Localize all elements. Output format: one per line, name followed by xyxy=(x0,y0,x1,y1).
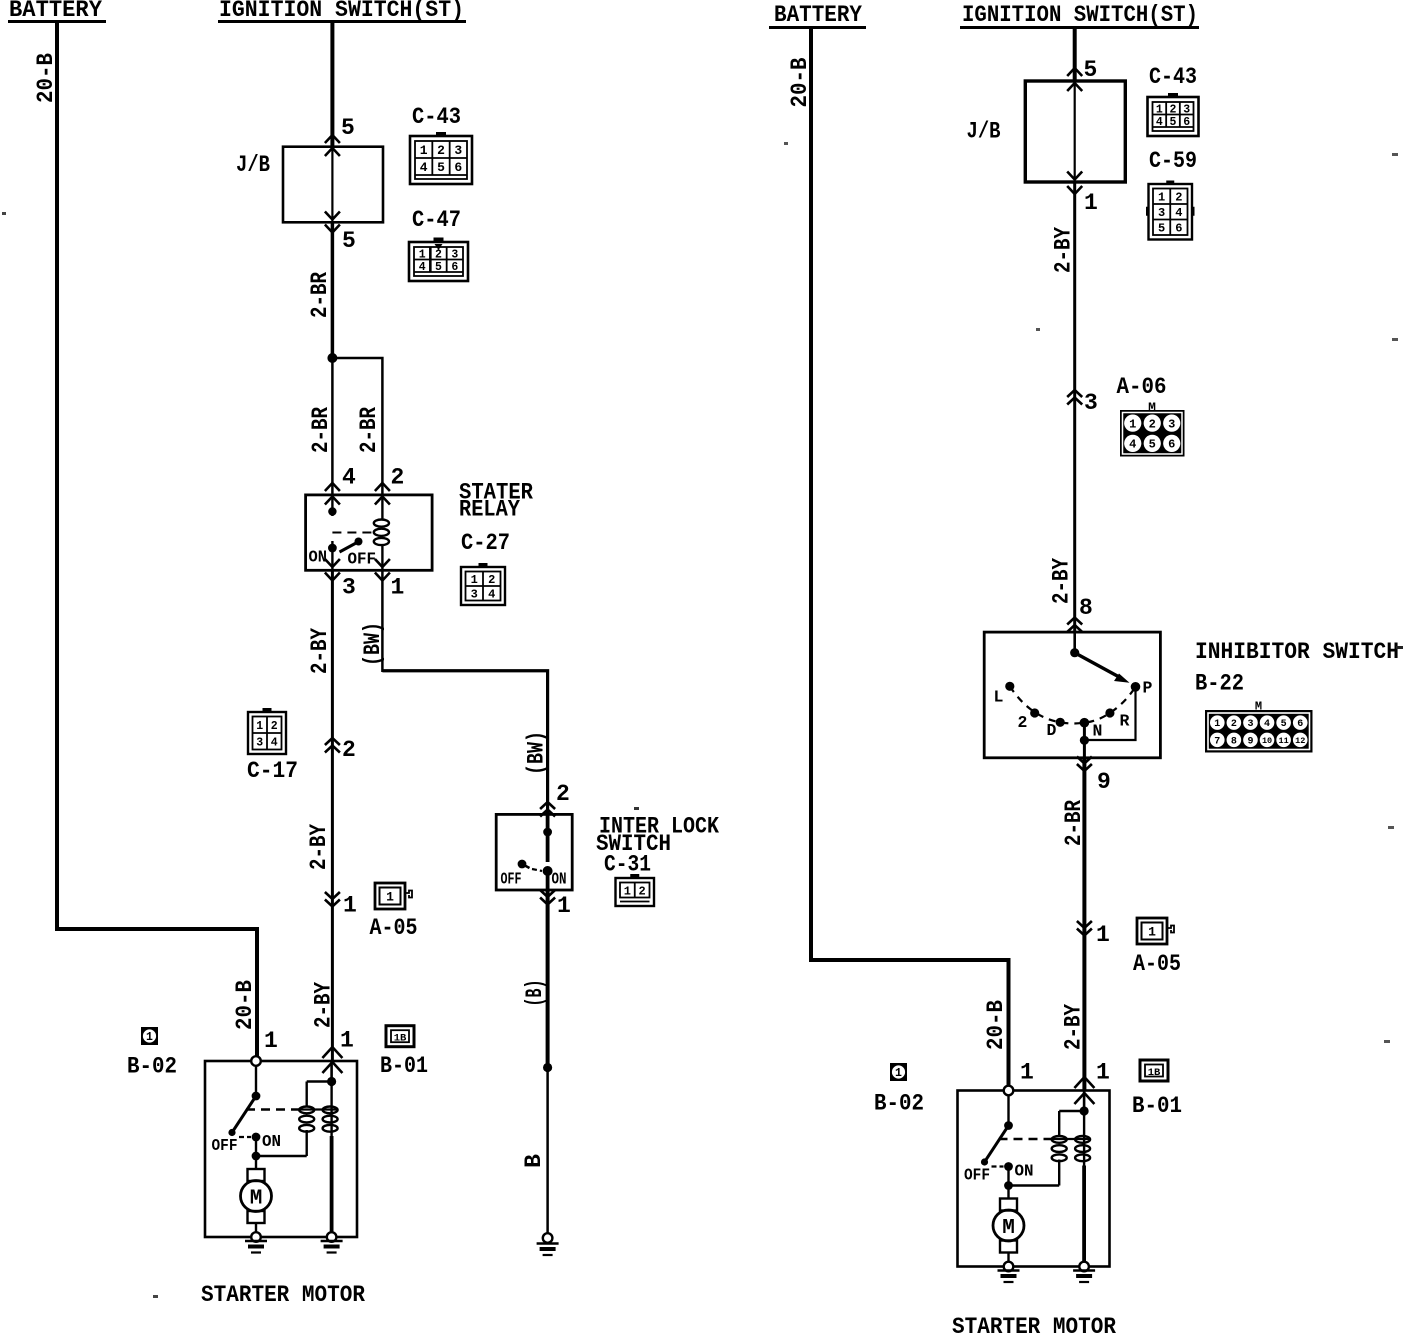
connector A-05 (left) xyxy=(375,883,405,909)
svg-text:1: 1 xyxy=(624,884,631,898)
svg-text:J/B: J/B xyxy=(967,119,1001,145)
svg-text:B-01: B-01 xyxy=(380,1053,428,1079)
svg-text:2-BR: 2-BR xyxy=(356,407,382,453)
svg-text:2: 2 xyxy=(1170,103,1177,116)
svg-text:1: 1 xyxy=(1096,1060,1110,1086)
wire 2-BR inhibitor to starter xyxy=(1082,758,1086,1091)
relay movable arm xyxy=(340,543,358,553)
wire junction to hold coil xyxy=(1009,1184,1060,1186)
connector arrow inhibitor pin 8 xyxy=(1067,618,1082,625)
svg-text:3: 3 xyxy=(454,143,462,158)
svg-text:M: M xyxy=(250,1188,263,1211)
svg-text:RELAY: RELAY xyxy=(459,497,520,523)
connector C-59 xyxy=(1166,181,1174,185)
svg-text:4: 4 xyxy=(1129,438,1136,452)
svg-text:R: R xyxy=(1120,712,1130,731)
svg-text:OFF: OFF xyxy=(501,870,522,889)
starter motor box xyxy=(958,1091,1110,1267)
interlock OFF contact xyxy=(518,860,527,869)
svg-text:1: 1 xyxy=(1156,103,1163,116)
svg-text:3: 3 xyxy=(451,248,458,261)
solenoid linkage solid xyxy=(1053,1138,1090,1140)
svg-text:20-B: 20-B xyxy=(33,53,59,103)
svg-text:4: 4 xyxy=(1156,116,1163,129)
svg-text:3: 3 xyxy=(1168,417,1175,431)
inhibitor wire in xyxy=(1073,632,1076,653)
wire 20-B battery run (left) xyxy=(57,22,257,1062)
svg-text:OFF: OFF xyxy=(964,1166,990,1185)
svg-text:C-43: C-43 xyxy=(412,104,461,130)
connector arrow out of J/B (left bottom) xyxy=(325,212,340,220)
position dot L xyxy=(1005,682,1014,691)
svg-text:1: 1 xyxy=(340,1028,354,1054)
connector arrow interlock pin 1 xyxy=(540,898,555,905)
svg-text:8: 8 xyxy=(1079,595,1093,621)
svg-text:ON: ON xyxy=(552,870,567,889)
pull-in coil xyxy=(323,1107,338,1114)
speck xyxy=(1384,1040,1390,1043)
svg-text:IGNITION SWITCH(ST): IGNITION SWITCH(ST) xyxy=(962,2,1198,29)
svg-text:INHIBITOR SWITCH: INHIBITOR SWITCH xyxy=(1195,639,1399,666)
svg-text:1: 1 xyxy=(1096,922,1110,948)
ON contact dot xyxy=(1004,1162,1013,1171)
wire hold coil top xyxy=(1058,1111,1060,1135)
ground (motor) xyxy=(245,1240,267,1242)
svg-text:B-22: B-22 xyxy=(1195,671,1244,697)
svg-text:5: 5 xyxy=(1149,438,1156,452)
svg-text:11: 11 xyxy=(1279,736,1289,746)
relay ON contact xyxy=(328,544,337,553)
relay contact wire (pin4) xyxy=(331,495,333,516)
svg-text:1: 1 xyxy=(557,893,571,919)
solenoid linkage solid xyxy=(300,1108,337,1110)
svg-text:5: 5 xyxy=(1084,57,1098,83)
wire P contact branch xyxy=(1084,687,1135,740)
wire ignition switch to J/B (left) xyxy=(330,22,334,147)
svg-text:1: 1 xyxy=(386,890,394,905)
motor lead xyxy=(1007,1186,1009,1199)
wire pin1 through pull-in coil xyxy=(330,1061,333,1082)
svg-text:2-BY: 2-BY xyxy=(1051,227,1077,273)
speck xyxy=(784,142,788,145)
svg-text:1: 1 xyxy=(264,1028,278,1054)
svg-text:2: 2 xyxy=(1175,191,1182,205)
svg-text:3: 3 xyxy=(1183,103,1190,116)
svg-text:2: 2 xyxy=(437,143,445,158)
junction dot N-P xyxy=(1080,736,1089,745)
connector arrow out of J/B (right) xyxy=(1067,172,1082,180)
ground pin circle (coil) xyxy=(327,1232,337,1242)
ground (coil) xyxy=(1073,1269,1095,1271)
svg-text:4: 4 xyxy=(420,160,428,175)
svg-text:2-BY: 2-BY xyxy=(1049,558,1075,604)
svg-text:2: 2 xyxy=(435,248,442,261)
svg-text:4: 4 xyxy=(488,588,495,602)
connector arrow A-06 pin 3 xyxy=(1067,390,1082,397)
interlock wire out xyxy=(546,871,550,890)
svg-text:10: 10 xyxy=(1262,736,1272,746)
connector pin circle (battery input) xyxy=(251,1056,261,1066)
svg-text:1B: 1B xyxy=(1148,1067,1161,1079)
connector arrow C-17 pin 2 xyxy=(325,738,340,745)
svg-text:1: 1 xyxy=(391,575,405,601)
wire (BW) relay pin1 to interlock xyxy=(381,570,384,672)
connector C-31 xyxy=(630,874,639,879)
svg-text:20-B: 20-B xyxy=(787,57,813,107)
wire battery to switch pivot xyxy=(1007,1095,1009,1125)
position dot N xyxy=(1080,718,1090,728)
svg-text:2: 2 xyxy=(639,884,646,898)
svg-text:1: 1 xyxy=(1158,191,1165,205)
svg-text:ON: ON xyxy=(309,548,328,567)
wire battery to switch pivot xyxy=(255,1066,257,1096)
connector pin circle (battery input) xyxy=(1004,1086,1014,1096)
wire 2-BY J/B to inhibitor xyxy=(1073,182,1076,632)
svg-text:9: 9 xyxy=(1247,736,1253,747)
svg-text:P: P xyxy=(1143,679,1153,698)
svg-text:12: 12 xyxy=(1295,736,1305,746)
svg-text:5: 5 xyxy=(1158,222,1165,236)
svg-text:2: 2 xyxy=(1149,417,1156,431)
connector B-02 (left) xyxy=(141,1027,158,1045)
svg-text:B-02: B-02 xyxy=(874,1091,924,1117)
svg-text:1: 1 xyxy=(419,248,426,261)
svg-text:2: 2 xyxy=(391,465,405,491)
svg-text:6: 6 xyxy=(451,261,458,274)
wire hold coil top xyxy=(306,1082,308,1106)
speck xyxy=(2,212,6,215)
dash OFF-ON xyxy=(992,1165,1004,1167)
svg-text:4: 4 xyxy=(271,736,278,749)
svg-text:C-47: C-47 xyxy=(412,207,461,233)
svg-text:1: 1 xyxy=(256,720,263,733)
connector arrow A-05 pin 1 (left) xyxy=(325,900,340,907)
position dot D xyxy=(1056,718,1065,727)
svg-text:C-59: C-59 xyxy=(1149,148,1197,174)
svg-text:6: 6 xyxy=(454,160,462,175)
svg-text:2-BY: 2-BY xyxy=(307,628,333,674)
wire pin1 through pull-in coil xyxy=(1083,1091,1086,1112)
connector B-01 (right) xyxy=(1140,1060,1168,1081)
svg-text:C-17: C-17 xyxy=(247,758,298,784)
svg-text:1: 1 xyxy=(1214,719,1220,730)
speck xyxy=(1036,328,1040,331)
speck xyxy=(634,807,639,810)
speck xyxy=(1396,646,1403,649)
svg-text:1: 1 xyxy=(471,573,478,587)
selector arc dashed xyxy=(1010,686,1136,723)
svg-text:6: 6 xyxy=(1175,222,1182,236)
wire junction to relay pin 4 xyxy=(331,358,334,495)
relay contact dot xyxy=(328,507,336,515)
interlock splice dot xyxy=(543,828,552,837)
svg-text:C-31: C-31 xyxy=(604,852,651,878)
relay coil wire top xyxy=(381,495,383,519)
svg-text:20-B: 20-B xyxy=(232,980,258,1030)
wire through J/B (right) xyxy=(1074,81,1076,182)
connector B-02 (right) xyxy=(890,1063,907,1081)
interlock dash OFF-ON xyxy=(532,869,542,871)
wire N to pin 9 xyxy=(1083,723,1086,758)
relay linkage dashed xyxy=(332,532,375,534)
svg-text:(BW): (BW) xyxy=(524,731,550,775)
dash OFF-ON xyxy=(239,1136,251,1138)
junction node dot xyxy=(327,353,337,363)
svg-text:4: 4 xyxy=(1264,719,1270,730)
wire 2-BY relay to starter (left) xyxy=(331,570,334,1061)
junction dot (pull-in) xyxy=(327,1077,336,1086)
splice dot (B) xyxy=(543,1063,552,1072)
connector C-43 (right) xyxy=(1168,93,1178,98)
svg-text:2-BR: 2-BR xyxy=(308,407,334,453)
speck xyxy=(1392,153,1398,156)
svg-text:ON: ON xyxy=(262,1132,281,1151)
svg-text:9: 9 xyxy=(1097,769,1111,795)
svg-text:J/B: J/B xyxy=(236,152,270,178)
inhibitor switch box B-22 xyxy=(984,632,1160,758)
svg-text:OFF: OFF xyxy=(212,1136,238,1155)
connector arrows into relay xyxy=(325,483,340,491)
connector C-27 xyxy=(479,563,488,568)
hold coil xyxy=(1052,1136,1067,1143)
motor M xyxy=(241,1181,272,1212)
connector arrow into starter (right) xyxy=(1074,1077,1094,1088)
inhibitor pivot dot xyxy=(1070,648,1079,657)
svg-text:A-05: A-05 xyxy=(370,915,418,941)
junction dot (pull-in) xyxy=(1080,1106,1089,1115)
pull-in coil xyxy=(1075,1136,1090,1143)
svg-text:1: 1 xyxy=(146,1031,153,1044)
svg-text:BATTERY: BATTERY xyxy=(774,2,863,29)
ground (motor) xyxy=(998,1269,1020,1271)
junction box J/B (right) xyxy=(1025,81,1125,182)
svg-text:B-01: B-01 xyxy=(1132,1093,1182,1119)
svg-text:2-BR: 2-BR xyxy=(1061,800,1087,846)
svg-text:5: 5 xyxy=(437,160,445,175)
position dot P xyxy=(1131,682,1141,692)
svg-text:(BW): (BW) xyxy=(360,622,386,666)
interlock ON contact xyxy=(543,866,553,876)
connector C-43 (left) xyxy=(436,132,446,137)
connector B-01 (left) xyxy=(386,1026,414,1047)
wire pull-in coil to ground xyxy=(1082,1166,1086,1267)
svg-text:3: 3 xyxy=(1084,390,1098,416)
svg-text:1: 1 xyxy=(1148,925,1156,940)
wire B to ground xyxy=(546,1068,549,1234)
switch arm to OFF xyxy=(232,1096,256,1133)
connector arrow into starter (left) xyxy=(322,1047,342,1058)
connector C-17 xyxy=(263,708,272,713)
inhibitor selector arm xyxy=(1075,653,1121,678)
motor M xyxy=(993,1210,1024,1241)
svg-text:2-BY: 2-BY xyxy=(311,982,337,1028)
wire ON to motor junction xyxy=(255,1137,257,1156)
connector arrow interlock pin 2 xyxy=(540,802,555,809)
svg-text:2-BY: 2-BY xyxy=(306,824,332,870)
junction dot (coil return) xyxy=(252,1152,261,1161)
svg-text:1: 1 xyxy=(1129,417,1136,431)
svg-text:C-27: C-27 xyxy=(461,530,510,556)
svg-text:7: 7 xyxy=(1214,736,1220,747)
svg-text:3: 3 xyxy=(256,736,263,749)
connector arrows out of relay xyxy=(325,559,340,567)
motor lead xyxy=(255,1156,257,1169)
svg-text:OFF: OFF xyxy=(348,550,377,569)
ON contact dot xyxy=(252,1133,261,1142)
switch pivot dot xyxy=(1004,1121,1013,1130)
starter motor box xyxy=(205,1061,357,1237)
speck xyxy=(1388,826,1394,829)
ground pin circle (motor) xyxy=(251,1232,261,1242)
svg-text:20-B: 20-B xyxy=(983,1000,1009,1050)
wire pull-in coil to ground xyxy=(330,1136,334,1237)
svg-text:5: 5 xyxy=(342,228,356,254)
svg-text:STARTER MOTOR: STARTER MOTOR xyxy=(952,1314,1117,1336)
connector A-05 (right) xyxy=(1137,918,1167,944)
svg-text:1: 1 xyxy=(895,1067,902,1080)
svg-text:6: 6 xyxy=(1183,116,1190,129)
connector arrow into J/B (right) xyxy=(1067,68,1082,76)
ground (interlock circuit) xyxy=(537,1242,559,1244)
switch arm to OFF xyxy=(985,1126,1009,1163)
speck xyxy=(1392,338,1398,341)
svg-text:B: B xyxy=(521,1154,547,1168)
svg-text:C-43: C-43 xyxy=(1149,64,1197,90)
connector arrow A-05 pin 1 (right) xyxy=(1077,929,1092,936)
svg-text:3: 3 xyxy=(1247,719,1253,730)
svg-text:4: 4 xyxy=(419,261,426,274)
svg-text:1: 1 xyxy=(1084,190,1098,216)
solenoid linkage dashed xyxy=(246,1108,300,1110)
svg-text:5: 5 xyxy=(435,261,442,274)
svg-text:ON: ON xyxy=(1015,1162,1034,1181)
motor brush top xyxy=(248,1169,265,1181)
wire ON to motor junction xyxy=(1007,1167,1009,1186)
svg-text:B-02: B-02 xyxy=(127,1054,177,1080)
motor brush bottom xyxy=(1000,1241,1017,1253)
svg-text:5: 5 xyxy=(341,115,355,141)
junction dot (coil return) xyxy=(1004,1181,1013,1190)
svg-text:3: 3 xyxy=(1158,206,1165,220)
motor lead bottom xyxy=(1007,1253,1009,1267)
hold coil xyxy=(299,1107,314,1114)
ground pin circle (motor) xyxy=(1004,1262,1014,1272)
svg-text:STARTER MOTOR: STARTER MOTOR xyxy=(201,1282,366,1309)
wire (B) interlock to ground xyxy=(546,890,550,1068)
svg-text:5: 5 xyxy=(1281,719,1287,730)
svg-text:2: 2 xyxy=(342,737,356,763)
solenoid linkage dashed xyxy=(999,1138,1053,1140)
svg-text:2-BY: 2-BY xyxy=(1061,1004,1087,1050)
interlock wire in xyxy=(546,814,550,862)
svg-text:1: 1 xyxy=(343,893,357,919)
relay coil xyxy=(374,520,389,527)
wire branch junction to relay pin 2 xyxy=(332,358,382,495)
speck xyxy=(153,1295,158,1298)
svg-text:4: 4 xyxy=(342,465,356,491)
wire 20-B battery run (right) xyxy=(811,28,1009,1091)
position dot R xyxy=(1105,708,1114,717)
svg-text:A-06: A-06 xyxy=(1117,374,1167,400)
position dot 2 xyxy=(1030,708,1039,717)
wire through J/B (left) xyxy=(331,147,333,223)
svg-text:M: M xyxy=(1002,1217,1015,1240)
svg-text:1: 1 xyxy=(420,143,428,158)
svg-text:2: 2 xyxy=(1018,713,1028,732)
svg-text:2: 2 xyxy=(271,720,278,733)
svg-text:2: 2 xyxy=(556,781,570,807)
connector C-47 xyxy=(434,238,444,242)
starter relay box C-27 xyxy=(306,495,433,570)
wire 2-BR J/B to junction (left) xyxy=(331,222,335,358)
svg-text:2: 2 xyxy=(488,573,495,587)
motor lead bottom xyxy=(255,1223,257,1237)
svg-text:L: L xyxy=(994,688,1004,707)
svg-text:2-BR: 2-BR xyxy=(307,272,333,318)
junction box J/B (left) xyxy=(283,147,383,223)
svg-text:1B: 1B xyxy=(394,1033,407,1045)
svg-text:1: 1 xyxy=(1020,1060,1034,1086)
inter lock switch box C-31 xyxy=(496,814,572,890)
motor brush bottom xyxy=(248,1211,265,1223)
ground pin circle (coil) xyxy=(1079,1262,1089,1272)
svg-text:3: 3 xyxy=(471,588,478,602)
svg-text:6: 6 xyxy=(1297,719,1303,730)
svg-text:2: 2 xyxy=(1231,719,1237,730)
svg-text:(B): (B) xyxy=(522,980,548,1007)
motor brush top xyxy=(1000,1199,1017,1211)
ground pin circle (interlock) xyxy=(543,1233,553,1243)
svg-text:N: N xyxy=(1093,722,1103,741)
svg-text:A-05: A-05 xyxy=(1133,951,1181,977)
wire junction to hold coil xyxy=(256,1155,307,1157)
wire ignition switch to J/B (right) xyxy=(1073,28,1077,82)
ground (coil) xyxy=(321,1240,343,1242)
svg-text:5: 5 xyxy=(1170,116,1177,129)
switch pivot dot xyxy=(252,1092,261,1101)
relay coil wire bottom xyxy=(381,546,383,571)
svg-text:8: 8 xyxy=(1231,736,1237,747)
svg-text:6: 6 xyxy=(1168,438,1175,452)
connector arrow into J/B (left top) xyxy=(325,135,340,143)
svg-text:3: 3 xyxy=(342,575,356,601)
svg-text:4: 4 xyxy=(1175,206,1182,220)
connector arrow inhibitor pin 9 xyxy=(1077,764,1092,771)
svg-text:D: D xyxy=(1047,721,1057,740)
